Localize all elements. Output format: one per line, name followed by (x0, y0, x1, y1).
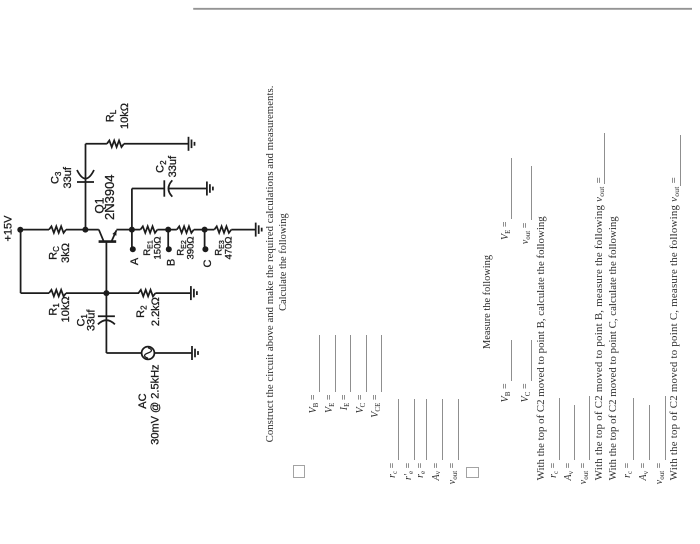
svg-text:R1: R1 (48, 303, 62, 316)
svg-text:2N3904: 2N3904 (102, 174, 117, 220)
svg-text:470Ω: 470Ω (223, 237, 234, 260)
svg-text:390Ω: 390Ω (186, 237, 197, 260)
svg-text:33uf: 33uf (62, 166, 74, 188)
svg-text:AC: AC (137, 393, 149, 408)
svg-text:RC: RC (48, 246, 62, 260)
svg-text:+15V: +15V (3, 215, 15, 242)
svg-text:33uf: 33uf (167, 155, 179, 177)
svg-text:2.2kΩ: 2.2kΩ (150, 297, 162, 326)
svg-text:150Ω: 150Ω (153, 237, 164, 260)
svg-text:10kΩ: 10kΩ (119, 103, 131, 129)
svg-text:33uf: 33uf (85, 309, 97, 331)
svg-text:30mV @ 2.5kHz: 30mV @ 2.5kHz (149, 364, 161, 444)
svg-text:A: A (129, 257, 141, 265)
svg-text:3kΩ: 3kΩ (60, 243, 72, 263)
svg-text:C: C (202, 259, 214, 267)
svg-text:B: B (166, 259, 178, 266)
svg-text:R2: R2 (135, 305, 149, 318)
svg-text:C2: C2 (154, 160, 168, 173)
svg-text:10kΩ: 10kΩ (60, 296, 72, 322)
svg-text:RL: RL (104, 109, 118, 122)
